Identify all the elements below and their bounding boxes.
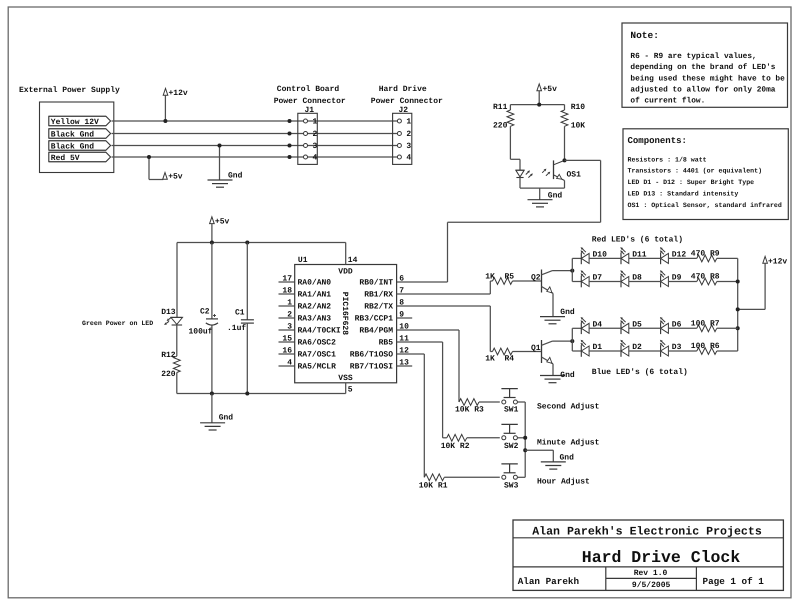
svg-text:Rev 1.0: Rev 1.0 [634,569,668,578]
svg-text:RB2/TX: RB2/TX [364,303,393,312]
svg-text:RB3/CCP1: RB3/CCP1 [355,315,394,324]
resistor R5 [485,273,514,285]
svg-text:2: 2 [406,130,411,139]
op-amp U1 PIC16F628 body [295,256,397,383]
svg-text:Note:: Note: [630,30,659,41]
blue bus left [572,328,581,351]
svg-text:Black Gnd: Black Gnd [51,131,94,140]
label Hard Drive [379,85,427,94]
wire Q2 emitter [552,293,554,316]
label Green Power on LED [82,320,153,327]
switch SW1 [501,389,518,415]
pin 7 label RB1/RX [364,287,404,300]
junction row4/+5v [147,155,151,159]
wire R1 to SW3 [444,476,500,478]
junction row4 pre-J1 [288,155,292,159]
LED D2 [620,340,642,357]
components box [623,129,788,220]
junction row3 pre-J1 [288,144,292,148]
label Power Connector (J2) [371,97,443,106]
ground (logic) [200,414,233,430]
transistor Q2 [531,270,553,294]
wire R12 to gnd rail [176,373,178,394]
wire R9 to +12v bus [717,257,738,259]
svg-text:Blue LED's (6 total): Blue LED's (6 total) [592,368,688,377]
external power supply box [40,102,114,173]
wire R7 to +12v bus [717,327,738,329]
svg-text:1K: 1K [485,273,495,282]
wire Q1 emitter [552,364,554,376]
svg-text:16: 16 [282,347,292,356]
wire Gnd (row3) [112,145,398,147]
wire RB4 to R3 [397,330,459,402]
resistor R7 [691,319,720,331]
svg-text:Gnd: Gnd [228,171,243,180]
wire R2 to SW2 [467,437,500,439]
svg-text:Q2: Q2 [531,274,541,283]
supply flag Black Gnd (pin 3) [49,141,111,152]
wire blue row y328 [589,327,697,329]
label Control Board [277,85,340,94]
power +12v (LED bus) [738,256,788,309]
svg-text:RA2/AN2: RA2/AN2 [298,303,332,312]
wire logic +5v rail [177,242,346,244]
pin 6 label RB0/INT [359,275,404,288]
pin 15 RA6/OSC2 [279,335,337,348]
label Power Connector (J1) [274,97,346,106]
wire OS1 bottom rail [520,178,565,189]
svg-text:10K: 10K [571,121,586,130]
junction row1 pre-J1 [288,119,292,123]
LED D4 [581,317,603,334]
note text [630,52,785,106]
svg-text:470 R8: 470 R8 [691,273,720,282]
text title Hard Drive Clock [582,548,741,567]
svg-text:6: 6 [399,275,404,284]
resistor R11 [493,103,514,160]
svg-text:of current flow.: of current flow. [630,97,705,106]
red bus left [572,258,581,281]
svg-text:Q1: Q1 [531,344,541,353]
wire switch gnd tap [525,450,553,462]
label Blue LEDs [592,368,688,377]
svg-text:100uf: 100uf [189,328,213,337]
svg-text:100 R7: 100 R7 [691,319,720,328]
svg-text:Minute Adjust: Minute Adjust [537,438,600,447]
svg-text:Power Connector: Power Connector [274,97,346,106]
svg-text:10K R1: 10K R1 [419,482,448,491]
junction gnd/C1 [245,392,249,396]
wire VDD pin 14 [345,243,347,265]
wire R5 to Q2 base [513,280,542,282]
svg-text:Gnd: Gnd [219,414,234,423]
junction bus/+12v [736,307,740,311]
svg-text:Black Gnd: Black Gnd [51,143,94,152]
pin 8 label RB2/TX [364,299,404,312]
pin 16 RA7/OSC1 [279,347,337,360]
wire R6 to +12v bus [717,350,738,352]
wire Q2 collector [553,270,573,272]
text date [632,581,671,590]
title mid divider [606,577,697,579]
svg-text:SW3: SW3 [504,482,519,491]
junction bus/R7 [736,326,740,330]
resistor R3 [455,399,484,415]
LED D1 [581,340,603,357]
wire red row y281 [589,281,697,283]
svg-text:Gnd: Gnd [560,308,575,317]
text company [532,526,762,539]
phototransistor OS1 [542,160,581,180]
svg-text:1K: 1K [485,355,495,364]
svg-text:+5v: +5v [215,218,230,227]
svg-text:Resistors : 1/8 watt: Resistors : 1/8 watt [628,156,707,163]
title col divider 2 [695,567,697,591]
svg-text:D13: D13 [161,308,176,317]
svg-text:Alan Parekh's Electronic Proje: Alan Parekh's Electronic Projects [532,526,762,539]
svg-text:10K R2: 10K R2 [441,442,470,451]
svg-text:OS1: OS1 [567,171,582,180]
svg-text:VDD: VDD [338,267,353,276]
capacitor C2 [189,243,219,394]
components text [628,156,782,209]
svg-text:14: 14 [348,256,358,265]
svg-text:RA3/AN3: RA3/AN3 [298,315,332,324]
svg-text:10K R3: 10K R3 [455,406,484,415]
pin 4 RA5/MCLR [279,359,337,372]
junction row1/+12v [163,119,167,123]
label Hour Adjust [537,478,590,487]
svg-text:RB1/RX: RB1/RX [364,291,393,300]
svg-text:1: 1 [406,118,411,127]
svg-text:Components:: Components: [628,136,687,146]
ground (supply) [208,171,243,187]
svg-text:+12v: +12v [169,89,188,98]
svg-text:SW1: SW1 [504,406,519,415]
supply flag Yellow 12V (pin 1) [49,116,111,127]
pin 10 label RB4/PGM [359,323,409,336]
svg-text:Yellow 12V: Yellow 12V [51,118,99,127]
svg-text:Gnd: Gnd [560,453,575,462]
label Minute Adjust [537,438,600,447]
switch bus [524,402,526,477]
wire +5v tap [149,157,163,180]
power +5v (sensor) [537,84,557,105]
svg-text:Red LED's (6 total): Red LED's (6 total) [592,235,683,244]
transistor Q1 [531,340,553,364]
supply flag Black Gnd (pin 2) [49,129,111,140]
label Second Adjust [537,403,600,412]
wire logic gnd rail [177,393,346,395]
wire SW3 to bus [518,476,526,478]
pin 9 label RB3/CCP1 [355,311,405,324]
svg-text:17: 17 [282,275,292,284]
capacitor C1 [227,243,254,394]
svg-text:2: 2 [287,311,292,320]
ground (switches) [541,453,574,469]
wire sensor +5v rail [510,104,564,106]
switch SW2 [501,424,518,451]
note title [630,30,659,41]
svg-text:RA7/OSC1: RA7/OSC1 [298,351,337,360]
svg-text:RA1/AN1: RA1/AN1 [298,291,332,300]
LED D6 [660,317,682,334]
svg-text:.1uf: .1uf [227,324,246,333]
svg-text:RB5: RB5 [379,339,394,348]
supply flag Red 5V (pin 4) [49,152,111,163]
svg-text:18: 18 [282,287,292,296]
svg-text:Gnd: Gnd [548,192,563,201]
resistor R4 [485,348,514,364]
wire R3 to SW1 [479,401,500,403]
junction row3/gnd [218,144,222,148]
wire R11 to LED [510,159,520,170]
svg-text:RA0/AN0: RA0/AN0 [298,279,332,288]
junction rail/C1 [245,241,249,245]
svg-text:1: 1 [287,299,292,308]
text rev [634,569,668,578]
svg-text:2: 2 [313,130,318,139]
svg-text:R12: R12 [161,351,176,360]
svg-text:Hard Drive Clock: Hard Drive Clock [582,548,741,567]
svg-text:+5v: +5v [543,85,558,94]
pin 9 stub [397,317,413,319]
svg-text:+12v: +12v [768,257,787,266]
junction bus/R8 [736,280,740,284]
wire RB2 to R4 [397,306,493,352]
wire R8 to +12v bus [717,281,738,283]
svg-text:3: 3 [406,142,411,151]
svg-text:5: 5 [348,386,353,395]
junction sensor rail/+5v [537,103,541,107]
LED D11 [620,247,647,264]
wire D13 to R12 [176,325,178,356]
wire red row y258 [589,257,697,259]
svg-text:LED D1 - D12 : Super Bright Ty: LED D1 - D12 : Super Bright Type [628,179,755,186]
pin 13 label RB7/T1OSI [350,359,409,372]
wire 12V rail (row1) [112,120,398,122]
svg-text:R6 - R9 are typical values,: R6 - R9 are typical values, [630,52,756,61]
infrared LED of OS1 [516,170,533,177]
svg-text:RA5/MCLR: RA5/MCLR [298,363,337,372]
ground (Q1) [540,371,575,383]
resistor R1 [419,474,448,491]
svg-text:9/5/2005: 9/5/2005 [632,581,671,590]
svg-text:SW2: SW2 [504,442,519,451]
svg-text:220: 220 [493,121,508,130]
wire gnd drop (sensor) [539,188,541,200]
junction bus/gnd tap [523,448,527,452]
svg-text:Second Adjust: Second Adjust [537,403,600,412]
svg-text:RB7/T1OSI: RB7/T1OSI [350,363,393,372]
label External Power Supply [19,86,120,95]
svg-text:OS1 : Optical Sensor, standard: OS1 : Optical Sensor, standard infrared [628,202,782,209]
wire gnd tap [219,146,221,181]
pin 2 RA3/AN3 [279,311,332,324]
wire blue row y351 [589,350,697,352]
svg-text:U1: U1 [298,256,308,265]
text author [518,576,580,587]
text page [703,576,765,587]
label Red LEDs [592,235,683,244]
svg-text:15: 15 [282,335,292,344]
LED D9 [660,270,682,287]
wire 5V (row4) [112,156,398,158]
svg-text:4: 4 [313,154,318,163]
svg-text:+5v: +5v [168,173,183,182]
svg-text:Red 5V: Red 5V [51,154,80,163]
LED D13 [161,308,182,325]
LED D12 [660,247,687,264]
svg-text:4: 4 [287,359,292,368]
junction OS1 collector [563,158,567,162]
LED D7 [581,270,603,287]
svg-text:R5: R5 [505,273,515,282]
+12v bus [737,258,739,351]
svg-text:Power Connector: Power Connector [371,97,443,106]
junction Q2/red bus [570,269,574,273]
power +12v (supply) [163,88,188,121]
wire Gnd (row2) [112,133,398,135]
connector J2 [393,106,412,164]
svg-text:Page 1 of 1: Page 1 of 1 [703,576,765,587]
wire OS1 collector to RB0/INT [397,160,601,282]
pin 13 stub [397,365,413,367]
wire RB6 to R1 [397,354,425,477]
wire R4 to Q1 base [513,351,542,353]
LED D8 [620,270,642,287]
svg-text:RB0/INT: RB0/INT [359,279,393,288]
pin 18 RA1/AN1 [279,287,332,300]
pin 17 RA0/AN0 [279,275,332,288]
connector J1 [298,106,318,164]
resistor R12 [161,351,180,379]
resistor R8 [691,273,720,285]
junction bus/SW2 [523,436,527,440]
wire VSS pin 5 [346,383,353,395]
resistor R10 [561,103,585,161]
wire SW1 to bus [518,401,526,403]
svg-text:RB4/PGM: RB4/PGM [359,327,393,336]
power +5v (supply) [163,173,183,182]
junction row2 pre-J1 [288,132,292,136]
svg-text:Alan Parekh: Alan Parekh [518,576,580,587]
resistor R9 [691,249,720,261]
LED D3 [660,340,682,357]
svg-text:100 R6: 100 R6 [691,342,720,351]
pin 12 label RB6/T1OSO [350,347,409,360]
svg-text:4: 4 [406,154,411,163]
svg-text:R11: R11 [493,103,508,112]
svg-text:C2: C2 [200,308,210,317]
svg-text:3: 3 [313,142,318,151]
title block box [513,520,783,590]
ground (Q2) [540,308,575,324]
svg-text:being used these might have to: being used these might have to be [630,74,785,83]
svg-text:VSS: VSS [338,374,353,383]
pin 1 RA2/AN2 [279,299,332,312]
wire SW2 to bus [518,437,526,439]
svg-text:Transistors : 4401 (or equival: Transistors : 4401 (or equivalent) [628,168,763,175]
svg-text:depending on the brand of LED': depending on the brand of LED's [630,63,775,72]
switch SW3 [501,464,518,491]
svg-text:Hard Drive: Hard Drive [379,85,427,94]
wire RB5 to R2 [397,342,447,438]
ground (sensor) [528,192,563,207]
note box [622,23,788,107]
title col divider 1 [605,567,607,591]
svg-text:R4: R4 [505,355,515,364]
power +5v (logic) [210,217,230,243]
svg-text:Control Board: Control Board [277,85,340,94]
pin 11 label RB5 [379,335,410,348]
svg-text:External Power Supply: External Power Supply [19,86,120,95]
svg-text:RA6/OSC2: RA6/OSC2 [298,339,337,348]
svg-text:Gnd: Gnd [560,371,575,380]
svg-text:LED D13 : Standard intensity: LED D13 : Standard intensity [628,191,739,198]
svg-text:RA4/T0CKI: RA4/T0CKI [298,327,341,336]
svg-text:adjusted to allow for only 20m: adjusted to allow for only 20ma [630,85,775,94]
svg-text:Green Power on LED: Green Power on LED [82,320,153,327]
svg-text:3: 3 [287,323,292,332]
svg-text:RB6/T1OSO: RB6/T1OSO [350,351,393,360]
svg-text:1: 1 [313,118,318,127]
svg-text:Hour Adjust: Hour Adjust [537,478,590,487]
svg-text:220: 220 [161,370,176,379]
wire rail to D13 [176,243,178,318]
svg-text:C1: C1 [235,309,245,318]
svg-text:PIC16F628: PIC16F628 [340,292,349,335]
resistor R2 [441,434,470,451]
LED D10 [581,247,608,264]
svg-text:R10: R10 [571,103,586,112]
junction Q1/blue bus [570,339,574,343]
junction rail/C2 [210,241,214,245]
junction gnd/C2 [210,392,214,396]
title row divider 2 [513,566,783,568]
pin 3 RA4/T0CKI [279,323,341,336]
svg-text:470 R9: 470 R9 [691,249,720,258]
LED D5 [620,317,642,334]
wire gnd drop (logic) [211,394,213,423]
title row divider 1 [513,537,783,539]
wire Q1 collector [553,340,573,342]
wire RB1 to R5 [397,281,493,294]
components title [628,136,687,146]
resistor R6 [691,342,720,354]
